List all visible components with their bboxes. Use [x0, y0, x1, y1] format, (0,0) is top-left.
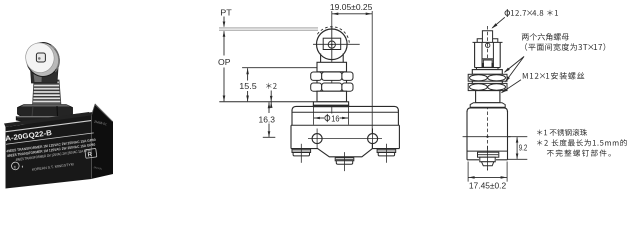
- middle drawing: panel-mount roller plunger switch, front view: [218, 2, 399, 171]
- hex nut 1: [468, 74, 507, 81]
- roller horizontal centre line: [313, 43, 360, 45]
- photo roller fork: [31, 68, 59, 83]
- svg-text:17.45±0.2: 17.45±0.2: [469, 182, 507, 191]
- hex nut 2: [468, 83, 507, 90]
- 17.45 extension lines: [467, 162, 469, 182]
- phi16 dimension arrows and text: [314, 117, 320, 120]
- photo nut washer: [16, 117, 74, 124]
- body sides: [466, 111, 468, 160]
- fork slot: [481, 42, 483, 67]
- 9.2 extension lines: [508, 136, 528, 138]
- *2 opposing arrows at mounting surface: [270, 91, 272, 108]
- bushing collar: [317, 62, 347, 72]
- 9.2 text: [518, 143, 528, 152]
- roller dashed arc (free position): [317, 27, 349, 43]
- leader to phi12.7 roller: [492, 17, 505, 28]
- hex nut 1 (three facets): [311, 72, 322, 80]
- photo roller: [23, 39, 63, 80]
- roller circle: [317, 29, 348, 60]
- leaders: two hex nuts: [505, 57, 524, 73]
- body top (rounded corners): [467, 108, 508, 112]
- photo body front face: [6, 116, 92, 189]
- threaded stem: [317, 91, 347, 102]
- PT leader line with arrow: [223, 17, 225, 27]
- fork sides: [320, 54, 322, 63]
- fork top line: [473, 41, 503, 43]
- collar: [477, 68, 499, 70]
- leader: M12 mounting screw: [502, 80, 521, 93]
- svg-text:16.3: 16.3: [259, 114, 276, 124]
- footnote 2 line 2: [547, 149, 611, 156]
- svg-text:PT: PT: [220, 8, 232, 18]
- photo hex nut: [18, 105, 73, 118]
- left: product photo illustration: [4, 39, 113, 189]
- body step line: [291, 124, 399, 126]
- flange (chamfered): [470, 103, 505, 108]
- 19.05 dimension line with arrows: [332, 13, 372, 15]
- photo body front-top highlight edge: [5, 121, 91, 132]
- right mounting hole: [368, 134, 378, 144]
- phi16 flange plate: [313, 102, 348, 107]
- 9.2 dimension line: [516, 137, 518, 159]
- slot cross lines and ball: [482, 58, 493, 60]
- photo body top face sliver: [4, 112, 91, 127]
- body centre reference line with dot: [463, 136, 511, 138]
- body top line (rounded corners): [292, 106, 398, 111]
- svg-text:16: 16: [331, 114, 340, 124]
- photo body right side face: [91, 104, 113, 180]
- terminal recess line: [467, 150, 508, 152]
- 16.3 lower tick (hole centre level): [263, 136, 276, 138]
- threaded mounting screw body: [476, 91, 500, 103]
- footnote 2 line 1: [537, 139, 627, 146]
- note: two hex nuts: [522, 33, 569, 40]
- 16.3 dimension: [268, 102, 271, 108]
- note: width across flats: [525, 43, 605, 51]
- footnote 1: stainless steel roller ball: [537, 129, 587, 136]
- collar between nuts: [471, 81, 473, 83]
- extension line down to right mounting hole: [371, 11, 373, 149]
- bottom shelf: [467, 159, 479, 161]
- centre dashed line: [487, 26, 489, 171]
- fork block sides: [474, 42, 476, 67]
- PT free-position double line (gray): [219, 27, 318, 29]
- body second top line: [292, 111, 398, 113]
- roller vertical centre line: [331, 27, 333, 60]
- svg-text:9.2: 9.2: [519, 144, 528, 153]
- terminal screw right: [377, 149, 396, 152]
- collar between nuts: [316, 80, 318, 83]
- terminal screw centre: [335, 158, 354, 161]
- roller pin circle: [328, 41, 335, 48]
- roller holder rect: [323, 38, 341, 49]
- 17.45 dimension line: [468, 176, 507, 178]
- mounting-surface line OP: [219, 101, 313, 103]
- 15.5 extension line (bushing top): [242, 67, 319, 69]
- svg-text:OP: OP: [218, 57, 231, 67]
- svg-text:15.5: 15.5: [239, 81, 257, 91]
- terminal screw side view: [478, 152, 499, 157]
- OP dimension line: [223, 31, 225, 55]
- photo body top face (behind nut): [13, 112, 97, 131]
- phi16 extension lines: [312, 106, 314, 124]
- note: M12x1 mounting screw: [523, 72, 584, 79]
- *2 label (incomplete thread note marker): [266, 83, 277, 89]
- bottom profile with centre recess: [291, 149, 399, 157]
- roller square drive hole: [36, 53, 45, 62]
- hex nut 2: [311, 83, 322, 91]
- mounting holes centre line: [308, 138, 382, 140]
- fork top tabs: [477, 39, 498, 43]
- 15.5 dimension: [246, 68, 249, 74]
- right drawing: plunger assembly side view: [463, 17, 528, 190]
- extension line: plunger centre line: [331, 11, 333, 114]
- roller edge-on post: [482, 31, 492, 43]
- note phi12.7x4.8 *1: [505, 11, 510, 16]
- body sides: [291, 110, 293, 125]
- svg-text:19.05±0.25: 19.05±0.25: [330, 2, 373, 12]
- left mounting hole: [312, 134, 322, 144]
- terminal screw left: [292, 149, 311, 152]
